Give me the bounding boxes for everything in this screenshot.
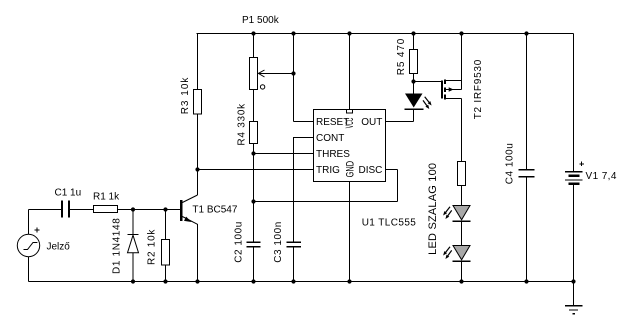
svg-text:T1 BC547: T1 BC547 [192,204,237,215]
svg-text:R5 470: R5 470 [396,38,407,75]
svg-text:C2 100u: C2 100u [234,221,245,263]
svg-text:C4 100u: C4 100u [505,143,516,185]
svg-text:C1 1u: C1 1u [55,188,82,199]
svg-text:CONT: CONT [316,133,344,144]
svg-text:THRES: THRES [316,149,350,160]
svg-text:R3 10k: R3 10k [180,77,191,115]
svg-text:VCC: VCC [344,118,356,129]
svg-text:C3 100n: C3 100n [273,221,284,263]
svg-text:V1 7,4: V1 7,4 [586,171,617,182]
svg-text:P1 500k: P1 500k [242,15,280,26]
svg-text:R1 1k: R1 1k [93,192,120,203]
svg-text:GND: GND [344,161,356,178]
svg-text:R2 10k: R2 10k [147,229,158,265]
svg-text:TRIG: TRIG [316,165,340,176]
svg-text:U1 TLC555: U1 TLC555 [362,217,417,228]
svg-text:R4 330k: R4 330k [237,103,248,146]
svg-text:OUT: OUT [361,117,382,128]
svg-text:DISC: DISC [358,165,382,176]
svg-text:LED SZALAG 100: LED SZALAG 100 [427,163,439,255]
svg-text:D1 1N4148: D1 1N4148 [111,218,122,274]
svg-text:T2 IRF9530: T2 IRF9530 [473,59,484,119]
svg-text:Jelző: Jelző [47,242,71,253]
